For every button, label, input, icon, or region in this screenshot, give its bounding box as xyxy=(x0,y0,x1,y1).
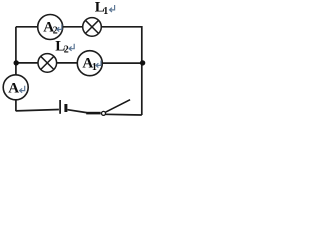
wire left vertical upper: top-left corner to node A xyxy=(15,27,17,63)
wire right vertical upper: top-right corner to node B xyxy=(141,26,143,63)
pilcrow return mark in A2 xyxy=(57,25,62,32)
svg-text:2: 2 xyxy=(64,45,69,56)
node B (right junction dot) xyxy=(140,60,145,65)
ammeter A xyxy=(3,75,28,100)
pilcrow return mark in A xyxy=(20,86,25,93)
switch pivot xyxy=(102,111,106,115)
svg-text:A: A xyxy=(8,81,19,97)
svg-text:2: 2 xyxy=(53,26,58,37)
lamp L2 xyxy=(38,54,57,73)
wire left vertical lower: A to bottom-left corner xyxy=(15,100,17,112)
wire: A2 to lamp L1 xyxy=(62,26,83,28)
wire bottom-right: switch to bottom-right corner xyxy=(105,113,142,116)
wire: lamp L2 to ammeter A1 xyxy=(56,62,78,64)
pilcrow return mark in A1 xyxy=(96,61,101,68)
ammeter A2 xyxy=(38,15,63,40)
switch fixed contact bar xyxy=(86,112,101,115)
wire left vertical mid: node A to ammeter A xyxy=(15,63,17,75)
wire middle-right: A1 to node B xyxy=(102,62,142,64)
wire: battery to switch contact xyxy=(68,110,87,113)
wire right vertical lower: node B to bottom-right corner xyxy=(141,63,143,115)
ammeter A1 xyxy=(77,51,102,76)
wire top-left: top-left corner to ammeter A2 xyxy=(16,26,38,28)
battery: short negative plate xyxy=(64,104,67,112)
svg-text:1: 1 xyxy=(92,62,97,73)
battery: long positive plate xyxy=(59,100,61,114)
switch lever xyxy=(105,100,130,113)
node A (left junction dot) xyxy=(14,60,19,65)
pilcrow return mark after L1 xyxy=(110,5,115,12)
wire middle-left: node A to lamp L2 xyxy=(16,62,39,64)
pilcrow return mark after L2 xyxy=(69,44,74,51)
wire bottom-left: corner to battery xyxy=(16,110,59,111)
wire: lamp L1 to top-right corner xyxy=(101,26,142,28)
lamp L1 xyxy=(83,18,102,37)
svg-text:1: 1 xyxy=(103,6,108,17)
